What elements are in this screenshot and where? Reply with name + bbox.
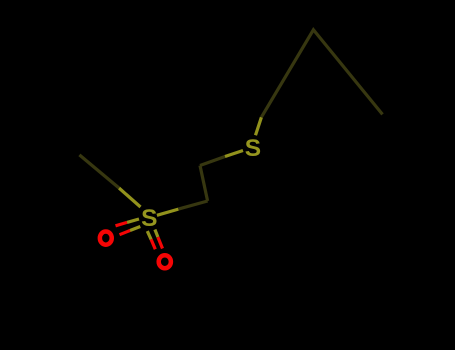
wire: bond S1-Ctop bright: [256, 117, 262, 135]
wire: bond S2-CH3 bright half (near S2): [119, 188, 141, 207]
wire: bond S2-V1 bright half: [157, 209, 179, 215]
wire: bond S2-V1 dark half: [178, 201, 207, 209]
wire: bond S2-CH3 dark half (to methyl C): [79, 155, 119, 188]
wire: lambda Ctop-Capex-Cright dark C-C chain: [261, 30, 382, 117]
wire: S2=O left double bond upper line olive half: [127, 219, 139, 222]
atom label O left (drawn ring): [100, 231, 112, 244]
svg-text:S: S: [245, 135, 261, 162]
wire: S2=O left upper line red half: [116, 222, 128, 225]
svg-text:S: S: [141, 205, 157, 232]
wire: bond V2-S1 dark half: [200, 157, 225, 166]
wire: S2=O left lower line red half: [120, 231, 131, 235]
wire: bond V1-V2 dark C-C: [200, 166, 208, 202]
wire: S2=O left double bond lower line olive half: [130, 227, 140, 231]
wire: S2=O bottom double bond right line olive half: [155, 230, 158, 238]
wire: bond V2-S1 bright half: [225, 151, 243, 157]
atom label O bottom (drawn ring): [159, 255, 171, 268]
wire: S2=O bottom left line red half: [151, 239, 155, 249]
wire: S2=O bottom double bond left line olive half: [147, 231, 151, 239]
wire: S2=O bottom right line red half: [158, 237, 163, 248]
